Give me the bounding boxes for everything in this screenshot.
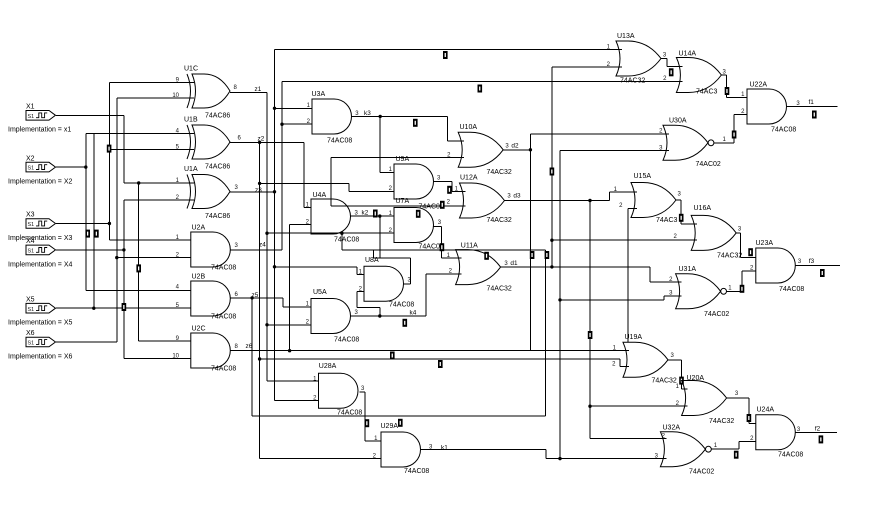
- svg-text:Implementation = X6: Implementation = X6: [8, 353, 73, 360]
- svg-text:U32A: U32A: [663, 425, 681, 432]
- svg-text:S1: S1: [28, 222, 35, 228]
- svg-text:U2C: U2C: [192, 326, 206, 333]
- svg-text:U23A: U23A: [756, 240, 774, 247]
- svg-text:U1A: U1A: [184, 166, 198, 173]
- svg-text:f3: f3: [809, 258, 815, 265]
- svg-text:f1: f1: [809, 99, 815, 106]
- svg-text:U3A: U3A: [312, 91, 326, 98]
- svg-text:74AC32: 74AC32: [652, 378, 677, 385]
- svg-text:U20A: U20A: [687, 375, 705, 382]
- svg-text:74AC08: 74AC08: [334, 237, 359, 244]
- svg-text:X3: X3: [26, 212, 35, 219]
- svg-text:74AC3: 74AC3: [656, 217, 678, 224]
- svg-text:X1: X1: [26, 104, 35, 111]
- svg-text:U4A: U4A: [313, 192, 327, 199]
- svg-text:74AC08: 74AC08: [337, 410, 362, 417]
- svg-text:U1C: U1C: [184, 66, 198, 73]
- svg-text:U24A: U24A: [757, 407, 775, 414]
- svg-text:74AC32: 74AC32: [709, 418, 734, 425]
- svg-text:74AC08: 74AC08: [779, 286, 804, 293]
- svg-text:74AC08: 74AC08: [327, 138, 352, 145]
- svg-text:X4: X4: [26, 238, 35, 245]
- svg-text:S1: S1: [28, 166, 35, 172]
- svg-text:74AC08: 74AC08: [771, 127, 796, 134]
- svg-text:Implementation = X4: Implementation = X4: [8, 261, 73, 268]
- svg-text:U30A: U30A: [669, 118, 687, 125]
- svg-text:Implementation = X5: Implementation = X5: [8, 320, 73, 327]
- svg-text:U15A: U15A: [634, 173, 652, 180]
- svg-text:U1B: U1B: [184, 117, 198, 124]
- svg-text:U28A: U28A: [319, 363, 337, 370]
- svg-text:Implementation = X2: Implementation = X2: [8, 179, 73, 186]
- svg-text:74AC32: 74AC32: [487, 217, 512, 224]
- svg-text:X2: X2: [26, 155, 35, 162]
- svg-text:Implementation = X3: Implementation = X3: [8, 235, 73, 242]
- svg-text:U13A: U13A: [617, 33, 635, 40]
- svg-text:74AC86: 74AC86: [205, 213, 230, 220]
- svg-text:74AC86: 74AC86: [205, 164, 230, 171]
- svg-text:74AC08: 74AC08: [211, 366, 236, 373]
- svg-text:74AC02: 74AC02: [696, 161, 721, 168]
- svg-text:74AC08: 74AC08: [211, 314, 236, 321]
- svg-text:Implementation = x1: Implementation = x1: [8, 127, 71, 134]
- svg-text:74AC08: 74AC08: [334, 337, 359, 344]
- svg-text:74AC08: 74AC08: [404, 468, 429, 475]
- svg-text:U22A: U22A: [750, 82, 768, 89]
- svg-text:74AC02: 74AC02: [704, 311, 729, 318]
- svg-text:U31A: U31A: [679, 266, 697, 273]
- svg-text:f2: f2: [815, 426, 821, 433]
- svg-text:k4: k4: [410, 309, 417, 316]
- svg-text:74AC32: 74AC32: [717, 253, 742, 260]
- svg-text:U19A: U19A: [625, 334, 643, 341]
- svg-text:k1: k1: [441, 444, 448, 451]
- svg-text:U12A: U12A: [460, 175, 478, 182]
- svg-text:U11A: U11A: [461, 242, 478, 249]
- svg-text:U7A: U7A: [396, 198, 410, 205]
- svg-text:74AC02: 74AC02: [689, 469, 714, 476]
- svg-text:S1: S1: [28, 114, 35, 120]
- svg-text:74AC86: 74AC86: [205, 113, 230, 120]
- svg-text:k2: k2: [362, 210, 369, 217]
- svg-text:74AC08: 74AC08: [211, 265, 236, 272]
- svg-text:S1: S1: [28, 249, 35, 255]
- svg-text:U16A: U16A: [694, 205, 712, 212]
- svg-text:S1: S1: [28, 341, 35, 347]
- svg-text:74AC32: 74AC32: [620, 78, 645, 85]
- svg-text:74AC32: 74AC32: [487, 286, 512, 293]
- svg-text:U2A: U2A: [192, 225, 206, 232]
- svg-text:d2: d2: [511, 143, 519, 150]
- svg-text:74AC3: 74AC3: [696, 89, 718, 96]
- svg-text:U2B: U2B: [192, 274, 206, 281]
- svg-text:d3: d3: [513, 192, 521, 199]
- svg-text:X6: X6: [26, 330, 35, 337]
- svg-text:U10A: U10A: [460, 124, 478, 131]
- svg-text:U14A: U14A: [679, 50, 697, 57]
- svg-text:74AC08: 74AC08: [778, 452, 803, 459]
- svg-text:X5: X5: [26, 296, 35, 303]
- svg-text:z3: z3: [255, 187, 262, 194]
- svg-text:74AC32: 74AC32: [487, 169, 512, 176]
- svg-text:d1: d1: [510, 260, 518, 267]
- svg-text:S1: S1: [28, 307, 35, 313]
- svg-text:U5A: U5A: [313, 289, 327, 296]
- svg-text:U29A: U29A: [381, 423, 399, 430]
- svg-text:74AC08: 74AC08: [389, 302, 414, 309]
- svg-text:z1: z1: [255, 86, 262, 93]
